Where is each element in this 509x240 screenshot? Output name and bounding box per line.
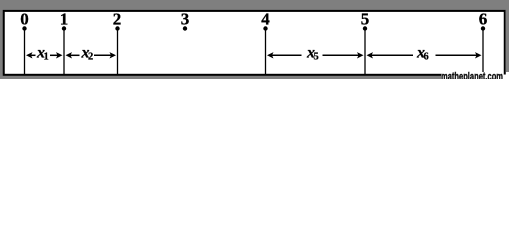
svg-text:2: 2	[88, 52, 93, 63]
tick 2	[117, 31, 119, 76]
tick 5	[364, 31, 366, 76]
right border bottom segment	[504, 72, 506, 75]
label x1	[36, 45, 49, 63]
label x2	[81, 45, 94, 63]
black frame border	[4, 11, 505, 75]
watermark patch	[441, 72, 509, 79]
svg-text:1: 1	[60, 9, 69, 28]
dot 6	[481, 26, 485, 30]
arrow x1 right	[50, 52, 63, 58]
arrow x5 right	[323, 52, 364, 58]
svg-text:5: 5	[361, 9, 370, 28]
svg-text:0: 0	[20, 9, 29, 28]
arrow x2 left	[66, 52, 80, 58]
gray right band	[506, 0, 509, 73]
arrow x6 left	[367, 52, 414, 58]
svg-text:3: 3	[181, 9, 190, 28]
gray top band	[0, 0, 509, 10]
label x6	[416, 45, 429, 63]
svg-text:1: 1	[44, 52, 49, 63]
arrow x1 left	[26, 52, 36, 58]
tick 1	[63, 31, 65, 76]
tick 0	[24, 31, 26, 76]
svg-text:2: 2	[113, 9, 122, 28]
dot 5	[363, 26, 367, 30]
arrow x6 right	[436, 52, 482, 58]
gray bottom band	[0, 76, 441, 80]
white background	[0, 0, 509, 79]
arrow x5 left	[267, 52, 302, 58]
dot 2	[115, 26, 119, 30]
svg-text:matheplanet.com: matheplanet.com	[441, 71, 503, 79]
tick 6	[482, 31, 484, 76]
svg-text:5: 5	[314, 52, 319, 63]
svg-text:6: 6	[479, 9, 488, 28]
dot 3	[183, 26, 187, 30]
label x5	[306, 45, 319, 63]
dot 0	[22, 26, 26, 30]
dot 1	[62, 26, 66, 30]
gray left band	[0, 0, 3, 79]
arrow x2 right	[94, 52, 116, 58]
svg-text:4: 4	[261, 9, 270, 28]
svg-text:6: 6	[424, 52, 429, 63]
tick 4	[265, 31, 267, 76]
dot 4	[263, 26, 267, 30]
